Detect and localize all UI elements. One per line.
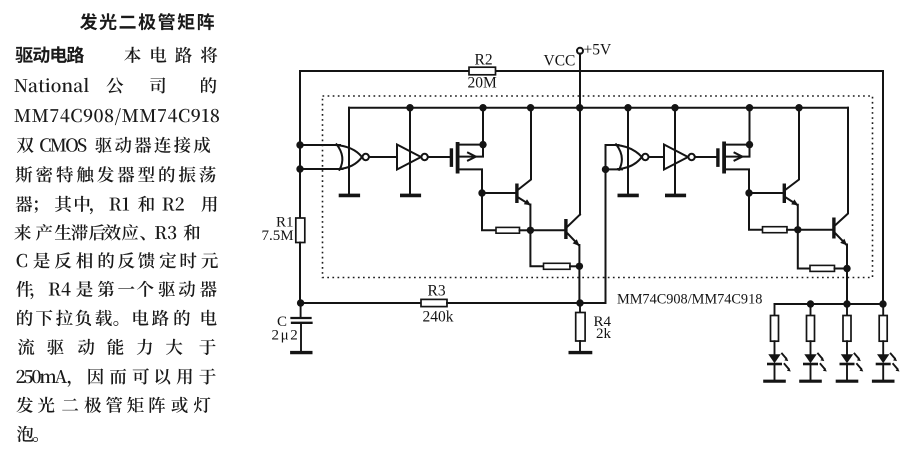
junction node (749,193) [745,189,752,196]
gate U2A output bubble [642,154,648,160]
svg-text:R2: R2 [475,52,493,69]
transistor Q2 emitter with arrow [568,234,580,267]
junction node (580,303) [576,299,583,306]
svg-text:+5V: +5V [584,42,612,59]
MOSFET Q5 substrate lead with arrow [460,145,484,157]
wire: right outer vertical (top rail to LED rail) [882,71,884,304]
junction node (847,304) [843,300,850,307]
junction node (606,169) [602,166,609,173]
wire: resistor to LED D2 [810,341,812,354]
resistor R1 [296,218,305,243]
wire: gate U1A upper input [300,144,340,146]
LED D2 emission arrows [818,354,825,369]
wire: capacitor C to ground [300,324,302,351]
gate U1A (NOR-connected driver input gate) [335,144,362,170]
transistor Q4 emitter with arrow [836,234,848,269]
wire: gate U2A power/ground stem [627,108,629,194]
junction node (483,108) [479,104,486,111]
wire: internal VCC bus [349,107,848,109]
wire: +5V VCC vertical down to Q2 collector [579,54,581,215]
gate U1A output inversion bubble [363,154,369,160]
MOSFET Q5 gate bar [450,148,453,167]
resistor R3 [421,299,447,306]
MOSFET Q6 channel bar [722,142,726,174]
wire: Q5 source to Q1 base [482,192,515,194]
wire: top VCC rail right segment [496,70,884,72]
wire: feedback riser to gate U2A inputs [605,169,607,303]
wire: gate U1A power/ground stem [348,108,350,194]
wire: LED D2 cathode lead [810,365,812,380]
svg-text:VCC: VCC [544,53,576,70]
wire: node A to capacitor C [300,303,302,317]
wire: U1B output to Q5 gate [428,156,450,158]
wire: Q2 emitter node down to bottom wire [578,266,580,303]
inverter U1B [397,145,421,170]
gate U2A [615,144,642,170]
wire: node C to Q4 base [798,229,832,231]
LED D1 column terminal bar [765,380,784,383]
wire: U1A output to inverter U1B [369,156,397,158]
junction node (799,108) [795,104,802,111]
wire: left vertical branch lower (R1 to bottom feedback wire) [299,243,301,304]
junction node (847,268) [843,265,850,272]
junction node (301,303) [297,299,304,306]
LED D2 column terminal bar [801,380,820,383]
junction node (883,304) [879,300,886,307]
wire: Q5 drain lead [460,108,484,145]
transistor Q3 base bar [783,184,786,204]
svg-text:20M: 20M [468,75,498,92]
wire: R7 to node C [787,229,798,231]
LED D4 [877,354,889,363]
transistor Q1 collector [518,108,531,190]
junction node (531,108) [527,104,534,111]
LED D1 [768,354,780,363]
wire: Q5 source lead [460,169,483,193]
capacitor C [292,317,311,319]
transistor Q2 base bar [564,219,567,239]
svg-text:7.5M: 7.5M [262,228,294,244]
LED D4 column terminal bar [874,380,893,383]
wire: gate U2A input tie jog [606,145,623,169]
junction node (300,169) [296,165,303,172]
wire: LED supply rail [775,303,884,305]
svg-text:2k: 2k [596,326,612,342]
resistor R5 (internal) [496,227,520,233]
junction node (750,108) [746,104,753,111]
MOSFET Q5 channel bar [456,142,460,174]
transistor Q2 collector [568,215,580,227]
wire: gate U1A lower input [300,168,343,170]
ground (R4) [570,351,590,354]
resistor R7 (internal) [763,227,788,233]
svg-text:2μ2: 2μ2 [272,328,300,344]
junction node (300,145) [296,141,303,148]
ground (gate U1A) [341,194,359,198]
transistor Q4 base bar [832,218,835,239]
transistor Q1 base bar [515,184,518,204]
LED D3 [841,354,853,363]
junction node (798,230) [794,226,801,233]
LED D2 [804,354,816,363]
junction node (750,145) [746,141,753,148]
MOSFET Q6 gate bar [716,148,719,167]
wire: Q6 source down to internal resistor R7 [749,193,763,230]
inverter U1B output bubble [421,154,427,160]
junction node (675,108) [671,104,678,111]
inverter U2B output bubble [688,154,694,160]
transistor Q1 emitter with arrow [518,198,530,231]
transistor Q4 collector [836,108,849,225]
transistor Q3 emitter with arrow [786,198,798,230]
transistor Q3 collector [786,108,799,190]
wire: LED D3 cathode lead [846,365,848,380]
LED D4 emission arrows [891,354,898,369]
junction node (482,193) [478,189,485,196]
wire: inverter U2B power/ground stem [674,108,676,194]
inverter U2B [664,145,688,170]
junction node (579,266) [576,263,583,270]
resistor (LED branch 3 limiter) [843,316,851,342]
resistor R6 (internal) [544,263,571,269]
svg-text:240k: 240k [423,309,454,326]
wire: Q6 source to Q3 base [749,192,783,194]
resistor (LED branch 2 limiter) [807,316,815,342]
wire: top VCC rail left segment [300,70,469,72]
wire: LED D1 cathode lead [774,365,776,380]
wire: Q6 source lead [726,169,749,193]
wire: LED D4 cathode lead [882,365,884,380]
junction node (628,108) [624,104,631,111]
wire: resistor to LED D3 [846,341,848,354]
wire: resistor to LED D1 [774,341,776,354]
wire: node B down to internal resistor R6 [530,230,543,266]
LED D3 column terminal bar [837,380,856,383]
wire: node C down to internal resistor R8 [798,230,810,269]
wire: node B to Q2 base [530,229,564,231]
junction node (410,108) [406,104,413,111]
junction node (483,145) [479,141,486,148]
junction node (530,230) [527,227,534,234]
MOSFET Q6 substrate lead with arrow [726,145,750,157]
resistor (LED branch 1 limiter) [771,316,779,342]
ground (inverter U1B) [402,194,420,198]
wire: R8 to Q4 emitter node [835,268,848,270]
wire: LED branch 2 from rail to resistor [810,304,812,316]
wire: inverter U1B power/ground stem [409,108,411,194]
junction node (580,108) [576,104,583,111]
wire: Q4 emitter node down to LED rail [846,269,848,305]
wire: resistor to LED D4 [882,341,884,354]
wire: R4 node down from bottom wire [579,303,581,313]
junction node (810,304) [807,300,814,307]
wire: Q5 source down to internal resistor R5 [482,193,496,230]
wire: U2B output to Q6 gate [695,156,716,158]
LED D3 emission arrows [855,354,862,369]
resistor R4 [576,313,585,342]
wire: R4 to ground [579,341,581,351]
LED D1 emission arrows [782,354,789,369]
wire: LED branch 4 from rail to resistor [882,304,884,316]
wire: R6 to Q2 emitter node [570,265,579,267]
ground (capacitor C) [292,351,311,354]
IC boundary dashed box MM74C908/MM74C918 [323,96,873,278]
svg-text:R3: R3 [428,283,446,300]
wire: U2A output to inverter U2B [649,156,664,158]
wire: LED branch 3 from rail to resistor [846,304,848,316]
wire: LED branch 1 from rail to resistor [774,304,776,316]
terminal +5V [577,48,583,54]
ground (gate U2A) [619,194,637,198]
wire: left vertical branch upper (node A to top rail) [299,71,301,218]
wire: Q6 drain lead [726,108,750,145]
resistor R8 (internal) [810,265,835,271]
ground (inverter U2B) [667,194,685,198]
wire: R5 to node B [520,229,531,231]
left column Chinese caption text [14,13,219,442]
wire: bottom feedback wire right of R3 [447,302,606,304]
wire: bottom feedback wire left of R3 [300,302,421,304]
resistor R2 [469,67,496,75]
svg-text:MM74C908/MM74C918: MM74C908/MM74C918 [617,292,762,308]
resistor (LED branch 4 limiter) [879,316,887,342]
